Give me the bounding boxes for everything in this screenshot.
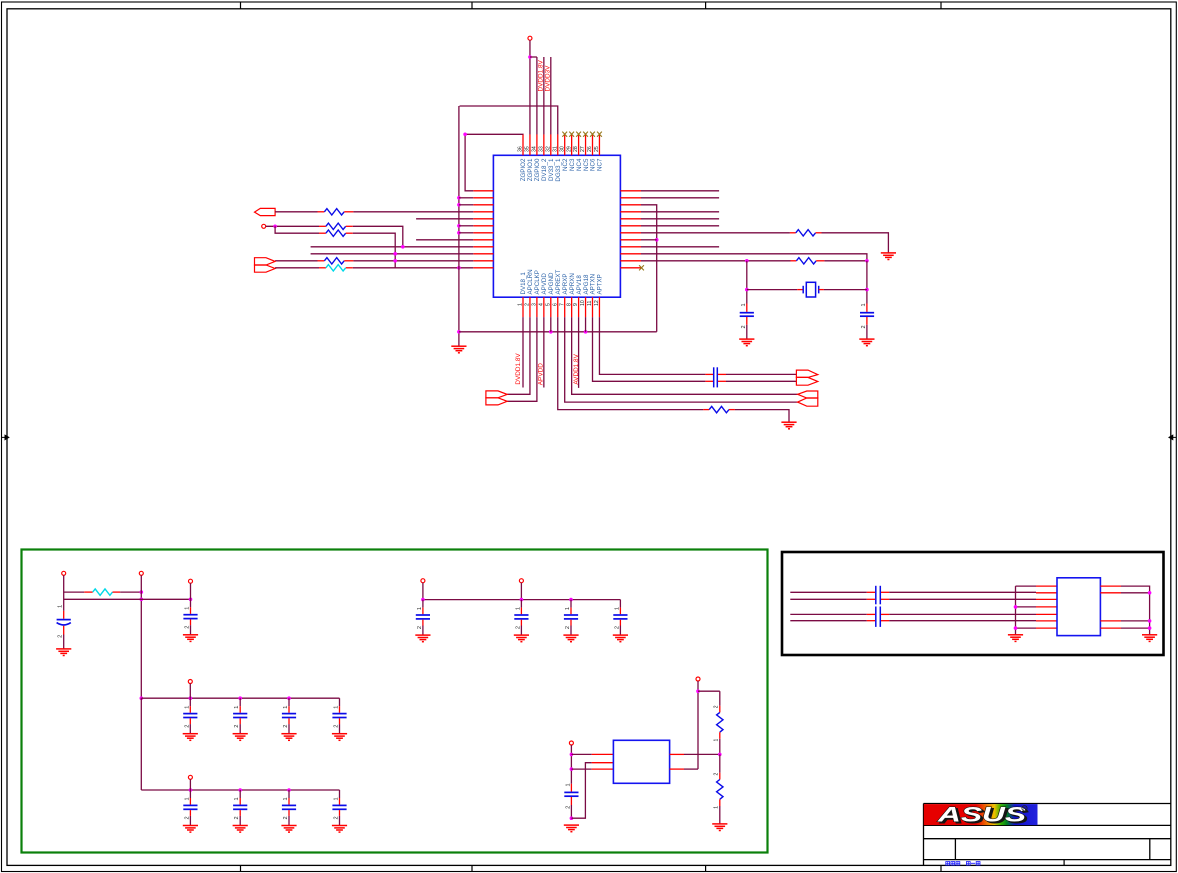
ground U3 left <box>1008 635 1023 642</box>
wire P8 to bus <box>422 583 424 600</box>
U1 top pin names <box>520 158 603 182</box>
svg-text:1: 1 <box>565 607 571 610</box>
wire pin6 to R8 <box>558 317 704 410</box>
wire rail to pin3 <box>459 204 473 206</box>
wire power to pin35 <box>528 40 532 134</box>
capacitor C17 <box>564 783 578 820</box>
wire pin9 right <box>641 246 719 248</box>
power port top <box>528 36 532 40</box>
svg-text:11: 11 <box>587 301 593 306</box>
svg-text:APTXN: APTXN <box>590 274 597 295</box>
svg-text:2: 2 <box>184 725 190 728</box>
svg-text:2: 2 <box>334 816 340 819</box>
resistor R5 cyan <box>319 265 353 271</box>
svg-text:NC3: NC3 <box>569 158 576 171</box>
svg-text:2: 2 <box>417 626 423 629</box>
wire R5 to pin12 <box>353 266 474 270</box>
port P4 <box>139 571 143 575</box>
capacitor C4 <box>183 599 198 641</box>
wire pin8 row <box>416 239 473 241</box>
wire pin8 right <box>641 239 657 241</box>
connector double arrow TX <box>796 370 817 385</box>
capacitor C12 <box>332 790 347 832</box>
resistor R7 <box>791 258 825 264</box>
wire P3 to R9 <box>64 591 85 593</box>
U1 bottom pin stubs <box>523 297 599 317</box>
wire pin33 <box>543 57 545 134</box>
capacitor C15 <box>563 600 578 642</box>
port P9 <box>519 579 523 583</box>
svg-text:9: 9 <box>573 303 579 306</box>
svg-text:1: 1 <box>417 607 423 610</box>
wire branch to R3 <box>275 226 319 233</box>
svg-text:1: 1 <box>518 303 524 306</box>
svg-text:2: 2 <box>713 705 719 708</box>
svg-text:ZGPIO0: ZGPIO0 <box>534 158 541 181</box>
connector double arrow bottom left <box>486 391 507 405</box>
svg-text:27: 27 <box>580 146 586 152</box>
svg-text:36: 36 <box>518 146 524 152</box>
title block lines <box>924 804 1171 866</box>
ASUS logo <box>924 804 1038 827</box>
green box <box>22 550 768 853</box>
bus green right <box>421 598 620 602</box>
svg-text:NC6: NC6 <box>590 158 597 171</box>
U1 top pin numbers <box>518 146 600 152</box>
net label DVDD1.8V top <box>537 60 544 92</box>
wire U2 pinA <box>571 753 613 755</box>
ground left rail <box>451 346 466 353</box>
ground R8 <box>781 422 796 429</box>
svg-text:APVDD: APVDD <box>538 363 545 385</box>
svg-text:2: 2 <box>525 303 531 306</box>
svg-text:1: 1 <box>185 607 191 610</box>
wire R7 to node <box>824 259 868 263</box>
wire rail to pin6 <box>459 225 473 227</box>
svg-text:1: 1 <box>184 706 190 709</box>
svg-text:NC2: NC2 <box>562 158 569 171</box>
svg-text:4: 4 <box>538 303 544 306</box>
svg-text:2: 2 <box>234 725 240 728</box>
wire pin5 bottom <box>550 317 552 332</box>
svg-text:29: 29 <box>566 146 572 152</box>
wire branch pin34 <box>530 57 537 134</box>
wire pin10 row <box>311 252 474 256</box>
port P6 <box>188 680 192 684</box>
capacitor C6 <box>233 698 248 740</box>
svg-text:DV18_1: DV18_1 <box>520 272 527 295</box>
wire PE to R10 <box>698 690 720 692</box>
svg-text:1: 1 <box>234 706 240 709</box>
svg-text:2: 2 <box>234 816 240 819</box>
wire pin5 right <box>641 218 719 220</box>
zone ticks bottom <box>241 865 942 871</box>
wire R9 to P4 column <box>120 590 143 594</box>
svg-text:35: 35 <box>525 146 531 152</box>
capacitor C10 <box>233 790 248 832</box>
U1 top pin stubs <box>523 134 599 155</box>
wire conn2 to R5 <box>275 267 319 269</box>
svg-text:DVDD1.8V: DVDD1.8V <box>537 60 544 92</box>
svg-text:ZGPIO2: ZGPIO2 <box>520 158 527 181</box>
wire P3 column <box>63 575 65 611</box>
resistor R8 <box>703 406 735 412</box>
wire pin8 to conn <box>572 317 798 394</box>
svg-text:31: 31 <box>552 146 558 152</box>
svg-text:APVDD: APVDD <box>541 273 548 295</box>
wire pin2 right <box>641 197 719 199</box>
svg-text:NC5: NC5 <box>583 158 590 171</box>
connector output double arrow left <box>255 258 276 273</box>
svg-text:3: 3 <box>532 303 538 306</box>
net label APVDD <box>538 363 545 385</box>
svg-text:R: R <box>1023 806 1026 811</box>
wire pin36 wrap to pin1 <box>463 133 523 191</box>
wire crystal left node <box>745 261 749 304</box>
capacitor C9 <box>183 790 198 832</box>
wire crystal right node <box>865 261 869 304</box>
svg-text:DG33_1: DG33_1 <box>555 158 562 182</box>
port P7 <box>188 775 192 779</box>
svg-text:2: 2 <box>565 806 571 809</box>
svg-text:APV18: APV18 <box>576 275 583 295</box>
svg-text:6: 6 <box>552 303 558 306</box>
svg-text:DVDD3V: DVDD3V <box>544 65 551 92</box>
crystal Y1 <box>803 282 819 297</box>
wire pin7 to conn <box>565 317 798 402</box>
wire pin1 bottom <box>522 317 524 387</box>
svg-text:26: 26 <box>587 146 593 152</box>
U3 right pin stubs <box>1100 586 1121 628</box>
wire P9 to bus <box>520 583 522 600</box>
svg-text:APREXT: APREXT <box>555 270 562 295</box>
port PF <box>569 741 573 745</box>
svg-text:2: 2 <box>283 725 289 728</box>
port PE <box>696 677 700 681</box>
svg-text:1: 1 <box>334 797 340 800</box>
svg-text:8: 8 <box>566 303 572 306</box>
ground C17 <box>564 825 579 832</box>
svg-text:32: 32 <box>545 146 551 152</box>
svg-text:APRXP: APRXP <box>562 274 569 295</box>
svg-text:APCLKP: APCLKP <box>534 270 541 294</box>
capacitor C2 <box>860 303 874 338</box>
svg-text:APCLRN: APCLRN <box>527 269 534 294</box>
svg-text:2: 2 <box>283 816 289 819</box>
wire pin7 to R6 <box>641 232 790 234</box>
svg-text:DV18_2: DV18_2 <box>541 158 548 181</box>
svg-text:2: 2 <box>614 626 620 629</box>
resistor R1 <box>318 209 354 215</box>
svg-text:30: 30 <box>559 146 565 152</box>
svg-text:2: 2 <box>515 626 521 629</box>
wire gnd to U2 pinB <box>571 763 613 819</box>
wire pin32 <box>550 57 552 134</box>
svg-text:1: 1 <box>184 797 190 800</box>
wire pin5 row <box>416 218 473 220</box>
wire conn to R1 <box>275 211 317 213</box>
svg-text:ZGPIO1: ZGPIO1 <box>527 158 534 181</box>
bus bottom row <box>141 788 339 792</box>
svg-text:1: 1 <box>614 607 620 610</box>
wire pin9 row <box>311 245 474 249</box>
wire U2 right pin1 <box>670 753 720 755</box>
svg-text:25: 25 <box>594 146 600 152</box>
U1 left pin stubs <box>473 191 493 268</box>
wire U2 right pin2 <box>670 768 698 770</box>
capacitor C14 <box>514 600 529 642</box>
module U3 <box>1057 578 1100 636</box>
wire pin4 bottom <box>543 317 545 387</box>
resistor R9 cyan <box>84 589 120 595</box>
capacitor C13 <box>415 600 430 642</box>
svg-text:10: 10 <box>580 300 586 306</box>
capacitor C8 <box>332 698 347 740</box>
svg-text:1: 1 <box>283 797 289 800</box>
svg-text:5: 5 <box>545 303 551 306</box>
ground U3 right <box>1142 635 1157 642</box>
ground R11 <box>712 824 727 831</box>
wire pin3 right <box>641 205 659 332</box>
ground R6 <box>881 253 896 260</box>
wire pin10 right <box>641 254 867 262</box>
svg-text:2: 2 <box>741 325 747 328</box>
ground C1 <box>739 339 754 346</box>
svg-text:APRXN: APRXN <box>569 273 576 294</box>
capacitor C5 <box>183 698 198 740</box>
port P5 <box>189 579 193 583</box>
port P3 <box>62 571 66 575</box>
svg-text:1: 1 <box>283 706 289 709</box>
wire R1 to pin4 <box>353 211 473 213</box>
wire P4 column lower <box>140 698 142 790</box>
wire R3 out vertical <box>353 233 395 268</box>
svg-text:ASUS: ASUS <box>936 804 1026 827</box>
capacitor CP1 polar <box>57 605 71 649</box>
U1 no-connect X marks pins 30-25 <box>562 132 602 137</box>
svg-text:DVDD1.8V: DVDD1.8V <box>515 353 522 385</box>
wire R2 out <box>353 226 403 247</box>
svg-text:33: 33 <box>538 146 544 152</box>
resistor R2 <box>319 223 353 229</box>
rail junction dots <box>457 196 461 334</box>
svg-text:NC7: NC7 <box>597 158 604 171</box>
wires caps to U3 <box>889 592 1036 620</box>
svg-text:1: 1 <box>334 706 340 709</box>
net label AVDD1.8V <box>573 353 580 384</box>
port circle left <box>262 224 266 228</box>
wire U2 pinC <box>571 768 613 770</box>
wire PF column <box>570 745 574 784</box>
svg-text:APTXP: APTXP <box>597 274 604 294</box>
svg-text:1: 1 <box>234 797 240 800</box>
connector input arrow <box>255 208 276 215</box>
svg-text:1: 1 <box>58 605 64 608</box>
svg-text:1: 1 <box>713 806 719 809</box>
capacitor C1 <box>740 303 754 338</box>
wires into magnetics <box>790 592 867 620</box>
black box <box>782 552 1164 655</box>
date text <box>946 862 980 866</box>
net label DVDD1.8V bottom <box>515 353 522 385</box>
svg-text:NC4: NC4 <box>576 158 583 171</box>
wire pin1 right <box>641 190 719 192</box>
IC U1 body <box>493 155 620 297</box>
wire pin12 to pair <box>599 317 705 374</box>
wire conn2 to R4 <box>275 260 317 262</box>
svg-text:2: 2 <box>185 626 191 629</box>
wire crystal to right node <box>819 289 867 291</box>
svg-text:1: 1 <box>713 739 719 742</box>
capacitor C7 <box>281 698 296 740</box>
bus green top <box>64 598 193 602</box>
bus mid row <box>141 696 339 700</box>
zone arrow right <box>1169 435 1176 439</box>
series capacitor C3 <box>705 367 726 387</box>
wire R8 to ground <box>735 410 789 422</box>
resistor R11 <box>713 754 723 823</box>
svg-text:DV33_1: DV33_1 <box>548 158 555 181</box>
wire pin4 right <box>641 211 719 213</box>
resistor R4 <box>318 258 354 264</box>
svg-text:1: 1 <box>861 303 867 306</box>
svg-text:1: 1 <box>741 303 747 306</box>
U1 right pin 12 no-connect X <box>639 265 644 270</box>
svg-text:28: 28 <box>573 146 579 152</box>
left ground rail <box>458 106 460 346</box>
svg-text:34: 34 <box>532 146 538 152</box>
wire pin3 to connector <box>507 317 537 401</box>
wire P6 to bus <box>189 684 191 699</box>
right gnd rail U3 <box>1121 586 1151 634</box>
wire to crystal left <box>747 289 803 291</box>
left gnd rail U3 <box>1014 586 1036 634</box>
resistor R10 <box>713 691 723 756</box>
svg-text:2: 2 <box>713 773 719 776</box>
wire port to R2 <box>266 225 319 229</box>
capacitor C11 <box>281 790 296 832</box>
svg-text:APG18: APG18 <box>583 274 590 295</box>
svg-text:1: 1 <box>565 783 571 786</box>
series caps C18 C19 <box>867 586 889 627</box>
resistor R6 <box>790 230 822 236</box>
wire pair to TX conn <box>726 374 796 381</box>
wire rail to pin7 <box>459 232 473 234</box>
capacitor C16 <box>613 600 628 642</box>
net label DVDD3V top <box>544 65 551 92</box>
wire pin6 right <box>641 225 719 227</box>
U1 bottom pin numbers <box>518 300 600 306</box>
svg-text:AVDD1.8V: AVDD1.8V <box>573 353 580 384</box>
wire PE down <box>696 681 700 769</box>
svg-text:2: 2 <box>334 725 340 728</box>
ground C2 <box>859 339 874 346</box>
wire R6 to ground <box>822 233 889 253</box>
svg-text:7: 7 <box>559 303 565 306</box>
port P8 <box>421 579 425 583</box>
resistor R3 <box>319 230 353 236</box>
wire pin31 to left rail <box>460 106 558 134</box>
zone arrow left <box>2 435 9 439</box>
wire pin2 to connector <box>507 317 530 394</box>
wire pin9 bottom <box>578 317 580 388</box>
svg-text:2: 2 <box>184 816 190 819</box>
wire pin10 bottom <box>585 317 587 332</box>
zone ticks top <box>241 2 942 9</box>
wire rail to pin2 <box>459 197 473 199</box>
svg-text:2: 2 <box>58 635 64 638</box>
svg-text:APGND: APGND <box>548 272 555 295</box>
U1 bottom pin names <box>520 269 603 294</box>
svg-text:1: 1 <box>515 607 521 610</box>
wire P7 to bus <box>189 779 191 790</box>
ground CP1 <box>56 649 71 656</box>
svg-text:2: 2 <box>565 626 571 629</box>
ground bus below IC <box>459 330 657 334</box>
connector double arrow RX <box>798 391 818 406</box>
module U2 <box>613 740 669 783</box>
U1 right pin stubs <box>620 191 641 268</box>
wire R4 to pin11 <box>353 259 473 263</box>
wire P5 to bus <box>190 583 192 599</box>
wire P4 column <box>140 575 144 700</box>
U3 left pin stubs <box>1036 586 1057 628</box>
svg-text:12: 12 <box>594 300 600 306</box>
wire pin11 to pair <box>593 317 706 381</box>
wire pin11 to R7 <box>641 259 791 263</box>
svg-text:2: 2 <box>861 325 867 328</box>
